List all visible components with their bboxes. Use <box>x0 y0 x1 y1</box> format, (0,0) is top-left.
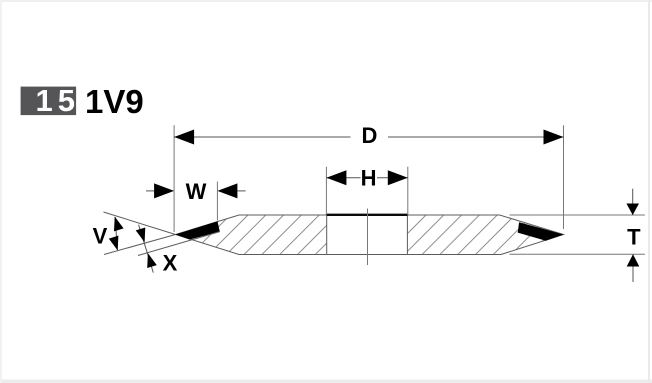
svg-text:1V9: 1V9 <box>85 83 144 120</box>
svg-text:T: T <box>627 224 641 249</box>
D extension line left <box>173 125 175 232</box>
H arrow left <box>326 170 346 185</box>
page border top <box>0 0 652 2</box>
X dimension line <box>139 225 154 273</box>
section hatching of wheel body <box>152 212 590 258</box>
wheel body outline <box>176 215 564 255</box>
vertical centerline <box>367 209 369 266</box>
X arrow upper <box>136 227 150 243</box>
V arrow down <box>109 236 123 252</box>
T arrow bottom <box>627 254 640 266</box>
D dimension line right segment <box>388 136 564 138</box>
svg-text:W: W <box>186 179 207 204</box>
page border left <box>0 0 2 383</box>
bore top thick edge <box>327 214 408 216</box>
upper face extension line <box>104 235 176 255</box>
H dimension line right segment <box>377 177 408 179</box>
W arrow left <box>154 183 174 198</box>
bore hole (white gap in section) <box>327 214 408 255</box>
H extension line left <box>325 167 327 215</box>
D arrow right <box>544 130 564 145</box>
W tail left <box>146 190 154 192</box>
svg-text:15: 15 <box>36 83 80 118</box>
svg-text:V: V <box>93 223 108 248</box>
D dimension line left segment <box>174 136 350 138</box>
svg-text:D: D <box>362 123 378 148</box>
bore left edge <box>326 215 328 255</box>
lower face extension line <box>104 212 176 235</box>
T tail bottom <box>632 254 634 282</box>
svg-text:X: X <box>163 250 178 275</box>
V dimension line <box>115 217 117 250</box>
H extension line right <box>407 167 409 215</box>
D arrow left <box>174 130 194 145</box>
diamond layer inner boundary line <box>138 232 220 256</box>
bore right edge <box>406 215 408 255</box>
bore bottom edge <box>327 254 408 256</box>
T extension line bottom <box>510 253 645 255</box>
page border bottom <box>0 380 652 383</box>
V arrow up <box>110 215 124 231</box>
page border right <box>648 0 650 383</box>
D extension line right <box>563 125 565 229</box>
W arrow right <box>217 183 237 198</box>
svg-text:H: H <box>361 165 377 190</box>
T arrow top <box>626 204 639 216</box>
H dimension line left segment <box>326 177 360 179</box>
diamond abrasive section right <box>518 222 564 241</box>
T extension line top <box>510 214 645 216</box>
index box 15 <box>21 87 77 116</box>
H arrow right <box>388 170 408 185</box>
W extension line right <box>216 182 218 221</box>
X arrow lower <box>143 252 157 268</box>
W tail right <box>237 190 245 192</box>
T tail top <box>632 189 634 215</box>
diamond abrasive section left <box>176 221 220 239</box>
